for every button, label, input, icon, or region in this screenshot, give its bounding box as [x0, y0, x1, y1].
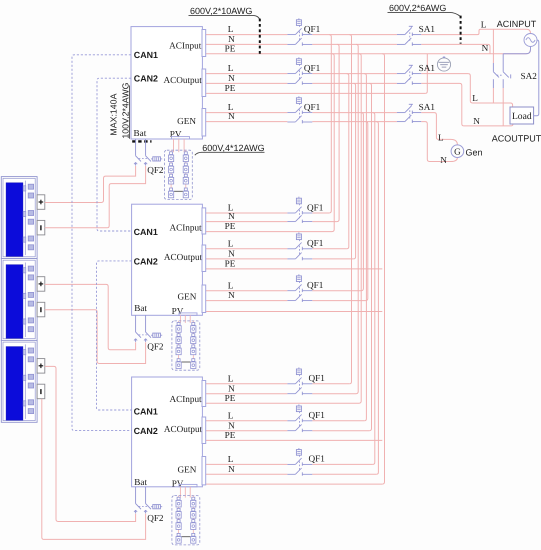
svg-text:L: L	[472, 93, 478, 103]
svg-text:600V,2*10AWG: 600V,2*10AWG	[190, 6, 252, 16]
svg-text:GEN: GEN	[178, 464, 197, 474]
svg-text:QF1: QF1	[304, 102, 321, 112]
svg-text:N: N	[228, 290, 235, 300]
svg-text:L: L	[228, 373, 234, 383]
svg-text:QF2: QF2	[147, 513, 164, 523]
svg-text:N: N	[228, 211, 235, 221]
svg-text:PE: PE	[225, 393, 236, 403]
svg-text:Bat: Bat	[134, 128, 147, 138]
svg-text:PE: PE	[225, 259, 236, 269]
svg-text:600V,2*6AWG: 600V,2*6AWG	[389, 3, 446, 13]
svg-text:Gen: Gen	[466, 147, 483, 157]
svg-text:QF2: QF2	[147, 342, 164, 352]
svg-text:SA1: SA1	[419, 24, 436, 34]
svg-text:ACInput: ACInput	[169, 40, 202, 50]
svg-text:L: L	[228, 238, 234, 248]
svg-text:N: N	[228, 420, 235, 430]
svg-text:SA1: SA1	[419, 63, 436, 73]
svg-text:Bat: Bat	[134, 477, 147, 487]
svg-text:QF2: QF2	[147, 165, 164, 175]
svg-text:PV: PV	[172, 306, 184, 316]
svg-text:GEN: GEN	[177, 116, 196, 126]
svg-text:PE: PE	[225, 43, 236, 53]
svg-text:ACOutput: ACOutput	[164, 424, 203, 434]
svg-text:N: N	[228, 383, 235, 393]
svg-text:N: N	[473, 116, 480, 126]
svg-text:600V,4*12AWG: 600V,4*12AWG	[202, 143, 264, 153]
svg-text:CAN2: CAN2	[134, 73, 158, 83]
svg-text:CAN1: CAN1	[134, 227, 158, 237]
svg-text:CAN1: CAN1	[134, 406, 158, 416]
svg-text:L: L	[228, 454, 234, 464]
svg-text:MAX:140A: MAX:140A	[109, 93, 119, 135]
svg-text:SA2: SA2	[521, 71, 538, 81]
svg-text:Bat: Bat	[134, 303, 147, 313]
svg-text:N: N	[228, 249, 235, 259]
svg-text:100V,2*4AWG: 100V,2*4AWG	[120, 82, 130, 138]
svg-text:GEN: GEN	[178, 292, 197, 302]
svg-text:QF1: QF1	[304, 24, 321, 34]
svg-text:PE: PE	[225, 430, 236, 440]
svg-text:CAN1: CAN1	[134, 50, 158, 60]
svg-text:L: L	[228, 63, 234, 73]
svg-text:ACINPUT: ACINPUT	[497, 19, 537, 29]
svg-text:N: N	[228, 464, 235, 474]
svg-text:CAN2: CAN2	[134, 426, 158, 436]
svg-text:QF1: QF1	[307, 202, 324, 212]
svg-text:ACOutput: ACOutput	[164, 75, 203, 85]
svg-text:QF1: QF1	[307, 280, 324, 290]
svg-text:L: L	[228, 24, 234, 34]
svg-text:QF1: QF1	[307, 238, 324, 248]
svg-text:QF1: QF1	[309, 410, 326, 420]
svg-text:N: N	[228, 111, 235, 121]
svg-text:ACOUTPUT: ACOUTPUT	[492, 134, 541, 144]
svg-text:ACOutput: ACOutput	[164, 252, 203, 262]
svg-text:L: L	[481, 20, 487, 30]
svg-text:QF1: QF1	[309, 454, 326, 464]
svg-text:N: N	[228, 73, 235, 83]
svg-text:L: L	[438, 132, 444, 142]
svg-text:SA1: SA1	[419, 102, 436, 112]
svg-text:Load: Load	[512, 111, 532, 122]
svg-text:PE: PE	[225, 83, 236, 93]
svg-text:L: L	[228, 410, 234, 420]
svg-text:QF1: QF1	[304, 63, 321, 73]
svg-text:L: L	[228, 280, 234, 290]
svg-text:N: N	[482, 43, 489, 53]
svg-text:QF1: QF1	[309, 373, 326, 383]
svg-text:PE: PE	[225, 221, 236, 231]
svg-text:CAN2: CAN2	[134, 256, 158, 266]
svg-text:ACInput: ACInput	[169, 223, 202, 233]
svg-text:ACInput: ACInput	[169, 394, 202, 404]
svg-text:G: G	[454, 146, 461, 156]
svg-text:N: N	[440, 155, 447, 165]
